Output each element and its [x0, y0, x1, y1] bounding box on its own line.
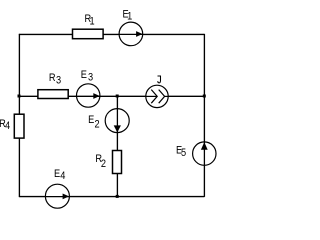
resistor R4: [14, 114, 24, 138]
wire bottom rail: [19, 196, 205, 198]
label E1: [122, 9, 132, 23]
svg-text:E: E: [81, 69, 87, 81]
voltage source E2: [105, 109, 129, 133]
svg-text:R: R: [49, 72, 56, 84]
voltage source E5: [193, 142, 216, 165]
node junction center-bottom: [116, 195, 119, 198]
resistor R1: [73, 29, 104, 39]
label R2: [95, 154, 106, 171]
node junction right-middle: [203, 95, 206, 98]
voltage source E4: [45, 184, 69, 208]
svg-text:3: 3: [56, 75, 61, 87]
svg-text:5: 5: [181, 147, 186, 159]
voltage source E1: [119, 22, 143, 46]
current source J: [146, 85, 168, 107]
svg-text:2: 2: [95, 119, 100, 131]
voltage source E3: [77, 84, 100, 107]
wire top rail: [19, 33, 205, 35]
label R1: [84, 13, 95, 28]
resistor R3: [38, 90, 68, 99]
label E5: [176, 145, 186, 159]
label J: [158, 76, 162, 83]
wire center branch: [116, 96, 118, 197]
resistor R2: [113, 151, 122, 174]
label E3: [81, 69, 94, 84]
label R3: [49, 72, 62, 86]
label E4: [54, 168, 66, 182]
label R4: [0, 118, 10, 132]
label E2: [88, 114, 100, 131]
node junction left-middle: [18, 95, 21, 98]
wire right rail: [203, 34, 205, 197]
svg-text:3: 3: [88, 72, 93, 84]
wire middle rail: [19, 95, 205, 97]
wire left rail: [18, 34, 20, 197]
svg-text:1: 1: [90, 16, 95, 28]
svg-text:2: 2: [101, 158, 106, 170]
svg-text:4: 4: [60, 170, 65, 182]
svg-text:E: E: [88, 114, 94, 126]
svg-text:1: 1: [127, 11, 132, 23]
node junction center-middle: [116, 95, 119, 98]
svg-text:4: 4: [5, 120, 10, 132]
